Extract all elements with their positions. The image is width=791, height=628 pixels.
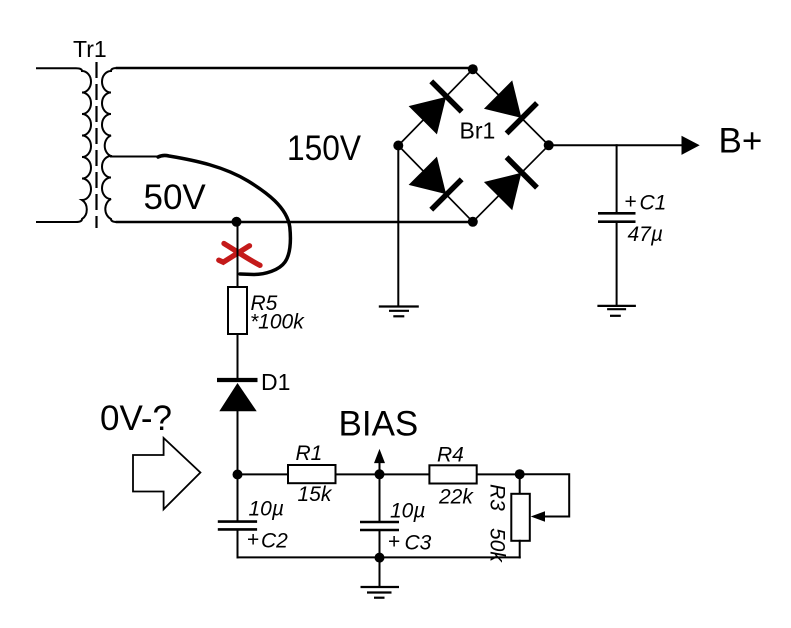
svg-text:R4: R4 [437,444,464,467]
wire bottom rail (secondary bottom to bridge bottom) [117,221,473,224]
wire C3 branch [379,474,381,520]
node bridge bottom [468,217,478,227]
svg-text:R1: R1 [296,442,323,465]
wire bridge right node to B+ [549,144,683,146]
wire bridge left node to ground [397,146,399,307]
diode Br1 bottom-left [408,156,462,210]
svg-text:C3: C3 [405,532,432,555]
svg-text:50k: 50k [486,528,509,563]
node bias right [515,469,525,479]
transformer Tr1 primary winding [37,68,91,222]
svg-text:0V-?: 0V-? [100,399,172,438]
wire C2 branch [237,474,239,520]
ground below C3 [361,587,400,598]
wire R5 to D1 [237,334,239,378]
svg-text:C1: C1 [640,192,667,215]
svg-text:*100k: *100k [250,311,305,334]
ground below C1 [597,306,636,316]
diode Br1 bottom-right [483,157,537,211]
node bottom rail / ground [375,553,385,563]
BIAS arrow [379,462,381,474]
svg-text:10µ: 10µ [249,498,284,521]
svg-text:Br1: Br1 [460,118,496,144]
wire C1 to ground [616,223,618,305]
svg-text:BIAS: BIAS [339,405,419,444]
node bias middle [375,469,385,479]
node bridge right [544,140,554,150]
svg-text:10µ: 10µ [390,500,425,523]
wire C2 to bottom rail [237,531,239,558]
svg-text:+: + [625,191,637,214]
svg-text:+: + [247,529,259,552]
transformer Tr1 core (dashed) [95,62,97,228]
wire bridge edges [398,69,548,222]
svg-text:+: + [388,531,400,554]
capacitor C2 [218,522,257,530]
wire bias rail to R3 top [519,474,521,494]
resistor R1 [288,465,336,483]
svg-text:50V: 50V [144,178,207,217]
arrowhead B+ output [682,136,700,155]
svg-text:R3: R3 [486,484,509,511]
svg-text:22k: 22k [438,486,474,509]
node bridge top [468,64,478,74]
resistor R5 [228,287,247,334]
wire junction down to R5 [237,222,239,287]
wire C3 to bottom rail [379,531,381,557]
svg-text:150V: 150V [287,129,362,168]
resistor R4 [429,465,476,483]
diode Br1 top-left [408,81,462,135]
potentiometer R3 body [511,494,530,541]
wire R3 wiper loop [520,474,570,516]
transformer Tr1 secondary winding upper section (150V) [102,68,117,156]
svg-text:15k: 15k [298,483,333,506]
annotation arrow pointing right [133,438,200,509]
transformer Tr1 secondary winding lower section (50V) [102,156,117,222]
diode D1 [217,380,258,411]
diode Br1 top-right [483,79,537,133]
svg-text:D1: D1 [261,369,290,395]
svg-text:47µ: 47µ [628,223,663,246]
arrowhead R3 wiper [531,511,545,522]
bridge rectifier Br1 [393,64,553,227]
node bias left [233,470,243,480]
svg-text:Tr1: Tr1 [73,36,107,62]
wire 50V tap lead [111,156,158,158]
capacitor C1 [598,213,636,221]
capacitor C3 [360,522,399,530]
svg-text:C2: C2 [261,530,288,553]
wire R3 bottom to bottom rail [519,541,521,558]
ground below bridge [379,307,419,317]
wire C1 branch from output rail [616,145,618,211]
svg-text:B+: B+ [719,122,763,161]
wire top rail (secondary top to bridge top) [117,68,473,69]
hand-drawn rerouting wire from 50V tap to R5 [158,155,290,274]
wire bias rail [238,473,520,475]
wire bottom rail [238,556,520,558]
wire ground stem [379,557,381,586]
node bridge left [393,141,403,151]
red X cross-out mark [224,244,260,266]
wire D1 to bias rail [237,411,239,474]
junction node at 50V tap / bottom rail [232,217,242,227]
